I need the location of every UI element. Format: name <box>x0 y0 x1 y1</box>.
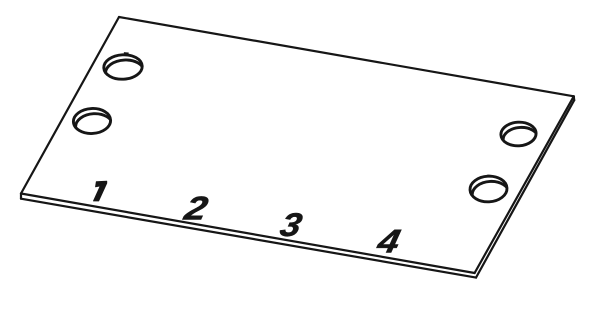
plate top surface outline <box>21 17 574 278</box>
hole 4 <box>469 175 509 208</box>
wire front bottom edge (thickness) <box>21 199 476 278</box>
wire left corner hook <box>20 194 22 199</box>
svg-text:3: 3 <box>277 207 306 244</box>
wire right inner edge <box>475 96 574 273</box>
label 1 <box>93 181 106 201</box>
svg-text:4: 4 <box>373 223 404 260</box>
wire left edge <box>21 17 119 194</box>
hole 1 <box>103 53 144 85</box>
wire front top edge <box>21 194 475 274</box>
svg-text:2: 2 <box>180 190 211 227</box>
wire right corner hook <box>573 96 576 100</box>
hole 3 <box>500 121 539 152</box>
wire top edge <box>119 17 574 96</box>
wire right outer edge (thickness) <box>476 100 574 277</box>
hole 2 <box>73 108 114 140</box>
